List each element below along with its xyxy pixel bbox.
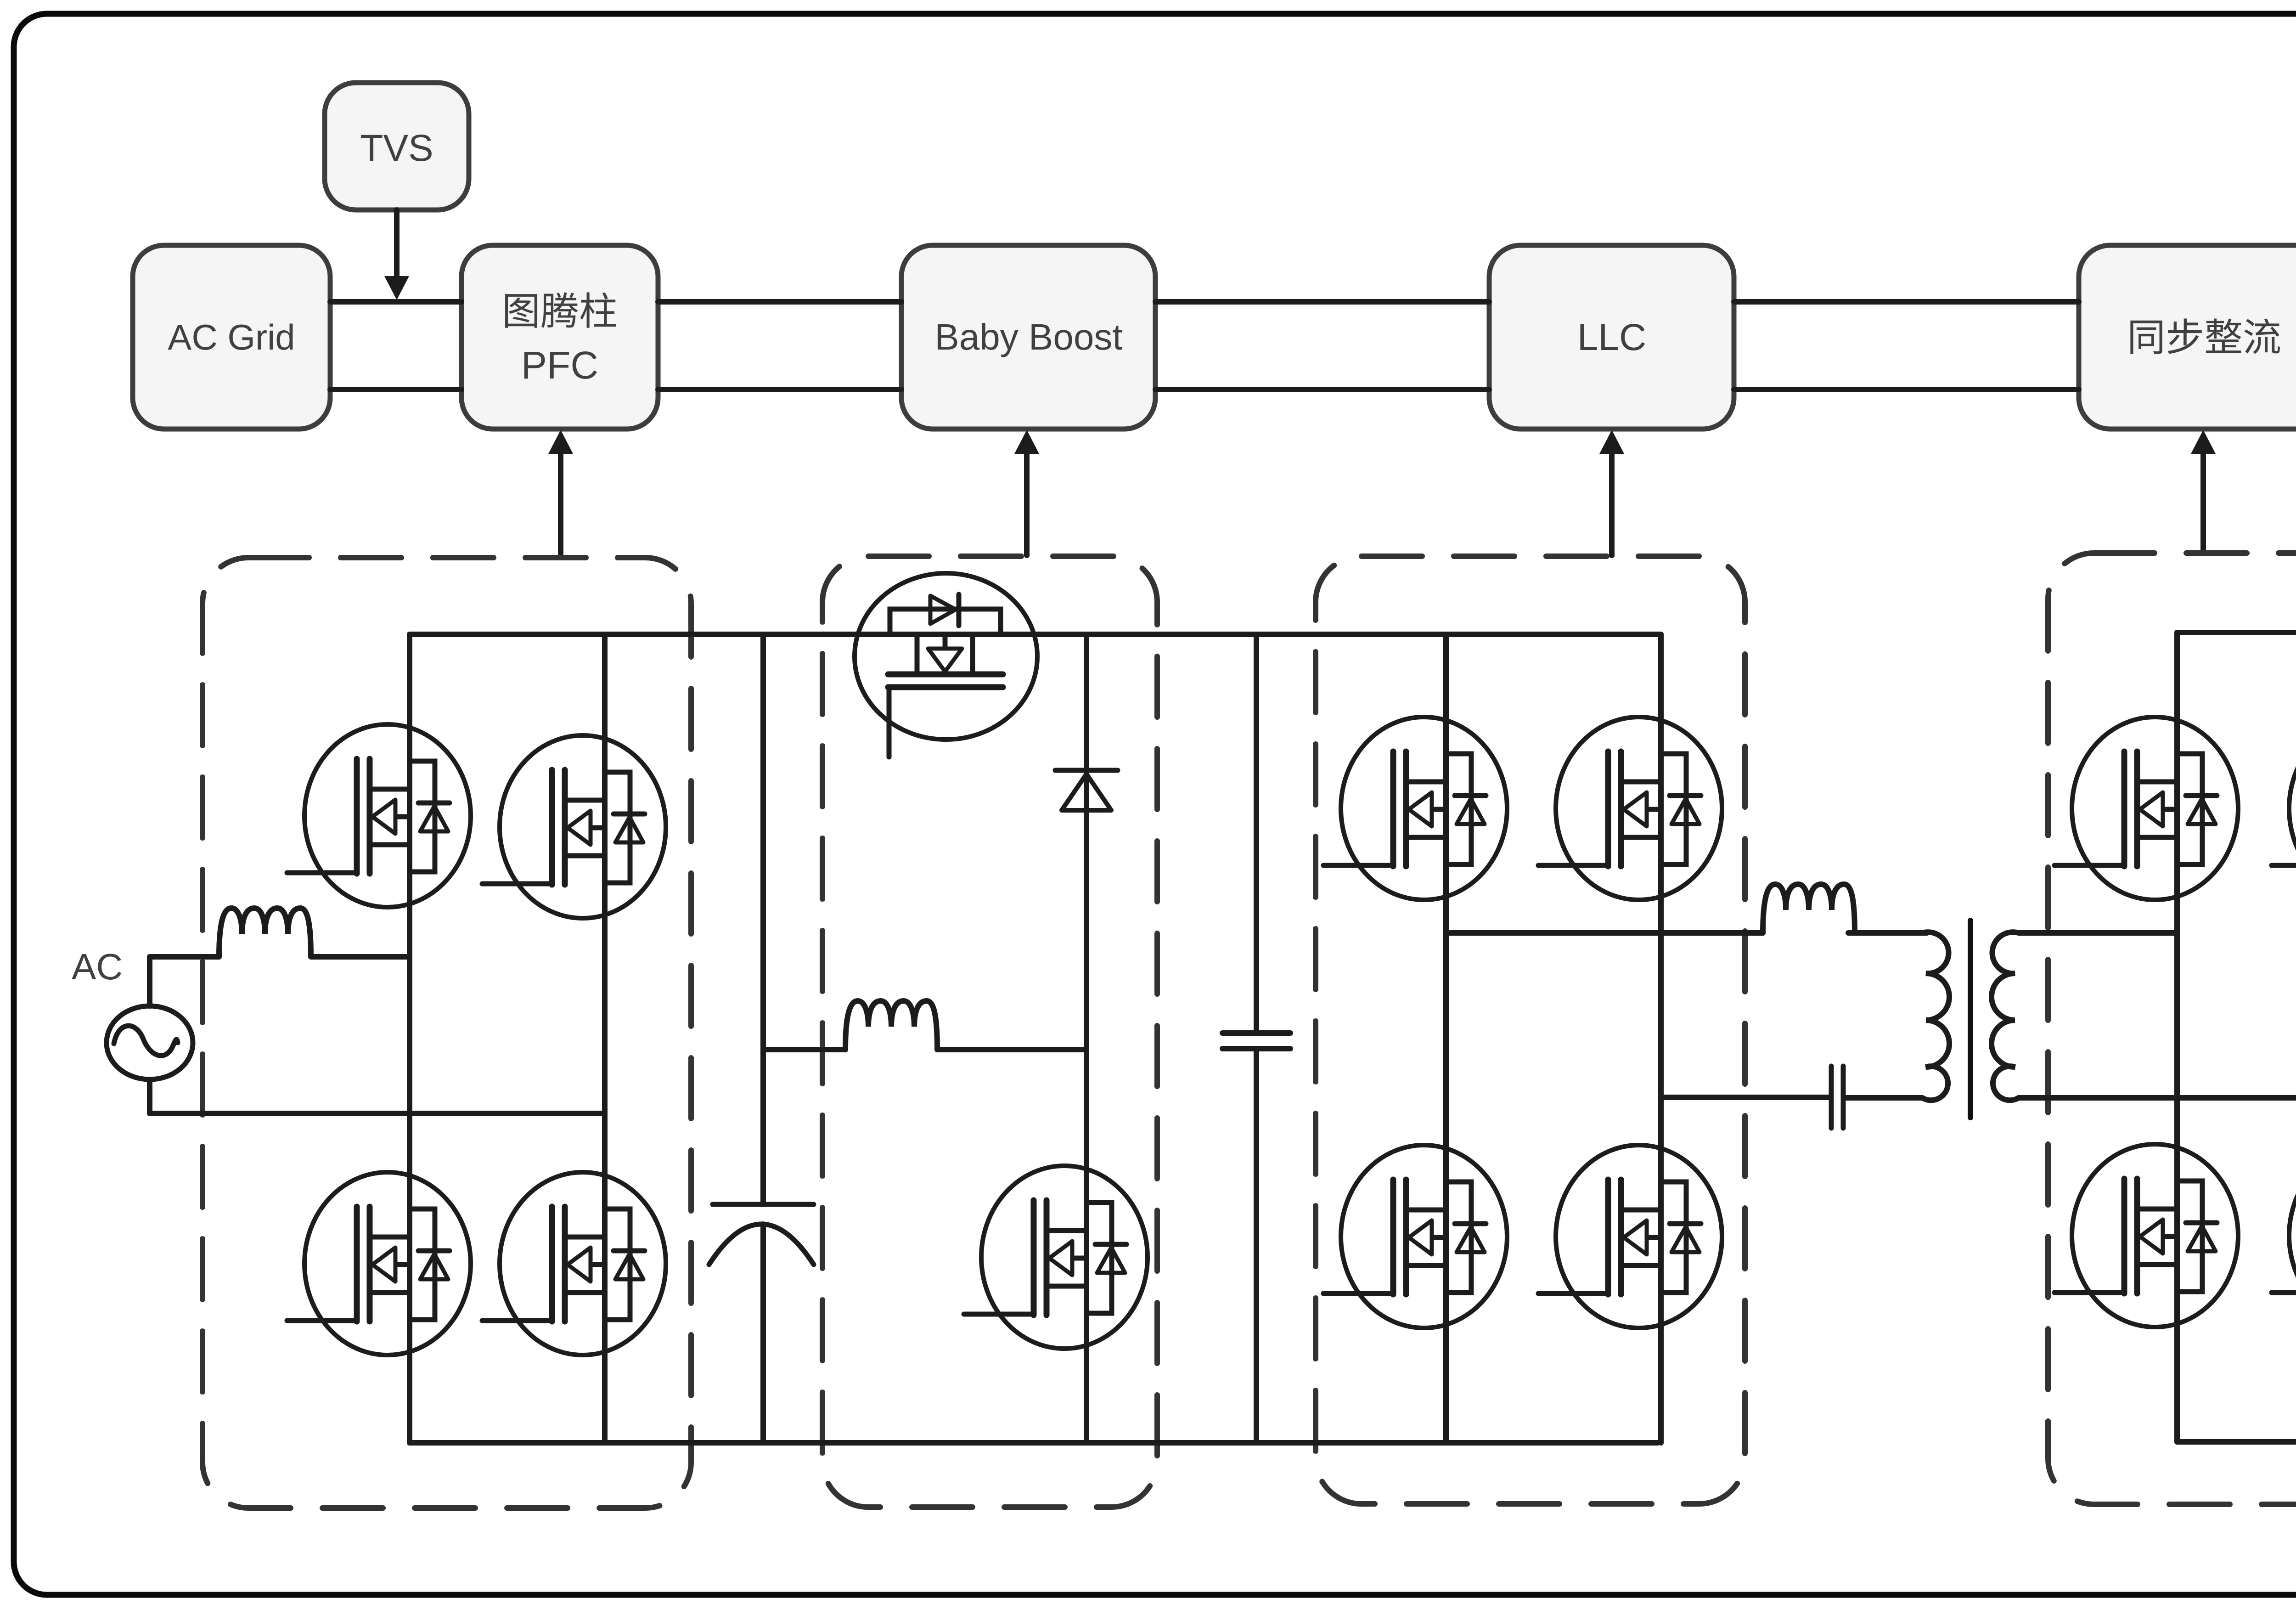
wire PFC bridge leg 1 — [407, 634, 412, 1443]
wire L1 to PFC leg1 midpoint — [311, 954, 410, 960]
svg-text:TVS: TVS — [360, 127, 433, 169]
arrow rectifier circuit to 同步整流 block — [2200, 453, 2206, 552]
inductor L1 (PFC input) — [219, 908, 311, 957]
svg-text:AC: AC — [72, 946, 123, 987]
svg-text:PFC: PFC — [521, 344, 598, 387]
wire LLC bridge leg 1 — [1443, 634, 1449, 1443]
mosfet Q4 (PFC low side B) — [482, 1172, 666, 1355]
mosfet Q8 (LLC high side B) — [1538, 717, 1722, 900]
capacitor C1 (PFC DC link) — [760, 634, 766, 1204]
mosfet Q1 (PFC high side A) — [287, 724, 471, 907]
wire bus top: Baby Boost to LLC — [1155, 299, 1489, 305]
wire LLC leg2 midpoint to Cr — [1661, 1095, 1829, 1100]
block AC Grid — [133, 245, 330, 429]
mosfet Q6 (boost low side) — [964, 1166, 1148, 1349]
block 同步整流 — [2079, 245, 2296, 429]
wire rectifier top rail — [2177, 630, 2296, 635]
wire boost inductor branch — [763, 1047, 845, 1052]
wire AC source top lead — [147, 957, 152, 1006]
wire Lr to transformer — [1855, 930, 1927, 936]
wire DC top rail (PFC/boost/LLC) — [410, 632, 1661, 637]
wire LLC leg1 midpoint to Lr — [1446, 930, 1763, 936]
wire bus top: AC Grid to PFC — [330, 299, 461, 305]
inductor L2 (boost) — [845, 1001, 937, 1050]
wire bus bottom: PFC to Baby Boost — [658, 387, 901, 392]
block LLC — [1489, 245, 1734, 429]
mosfet Q13 (rect low side A) — [2054, 1144, 2238, 1327]
wire bus bottom: LLC to 同步整流 — [1734, 387, 2079, 392]
mosfet Q10 (LLC low side B) — [1538, 1145, 1722, 1328]
block TVS (left) — [325, 83, 469, 210]
mosfet Q5 (boost high side, horizontal) — [855, 573, 1037, 757]
mosfet Q3 (PFC low side A) — [287, 1172, 471, 1355]
block Baby Boost — [901, 245, 1155, 429]
dashed box: LLC stage — [1316, 556, 1745, 1504]
wire LLC bridge leg 2 — [1658, 634, 1664, 1443]
transformer T1 core — [1968, 921, 1973, 1118]
mosfet Q14 (rect low side B) — [2272, 1144, 2296, 1327]
transformer T1 secondary winding — [1992, 932, 2296, 1100]
mosfet Q11 (rect high side A) — [2054, 717, 2238, 900]
svg-text:LLC: LLC — [1577, 316, 1646, 358]
mosfet Q2 (PFC high side B) — [482, 735, 666, 918]
svg-text:Baby Boost: Baby Boost — [934, 316, 1122, 357]
dashed box: baby boost stage — [822, 556, 1157, 1507]
arrow TVS left to bus — [394, 210, 400, 276]
wire bus top: PFC to Baby Boost — [658, 299, 901, 305]
mosfet Q7 (LLC high side A) — [1323, 717, 1507, 900]
svg-text:AC Grid: AC Grid — [168, 317, 295, 357]
wire AC source bottom lead — [147, 1079, 152, 1113]
inductor Lr (resonant) — [1763, 884, 1855, 933]
transformer T1 primary winding — [1846, 932, 1949, 1100]
mosfet Q12 (rect high side B) — [2272, 717, 2296, 900]
arrow LLC circuit to LLC block — [1609, 453, 1615, 555]
dashed box: synchronous rectifier stage — [2048, 553, 2296, 1504]
wire PFC bridge leg 2 — [602, 634, 608, 1443]
arrow boost circuit to Baby Boost block — [1024, 453, 1030, 555]
wire bus bottom: AC Grid to PFC — [330, 387, 461, 392]
wire bus bottom: Baby Boost to LLC — [1155, 387, 1489, 392]
wire boost diode leg — [1084, 634, 1089, 1443]
arrow PFC circuit to PFC block — [558, 453, 563, 557]
dashed box: totem-pole PFC stage — [203, 558, 691, 1508]
capacitor Cr (resonant) — [1829, 1066, 1834, 1128]
diode D1 (boost) — [1055, 768, 1118, 773]
ac source V1 — [107, 1006, 193, 1079]
block 图腾柱 PFC — [461, 245, 658, 429]
wire rectifier bridge leg 1 — [2174, 633, 2180, 1442]
wire bus top: LLC to 同步整流 — [1734, 299, 2079, 305]
wire rectifier bottom rail — [2177, 1439, 2296, 1445]
capacitor C2 (boost output) — [1254, 634, 1259, 1031]
wire DC bottom rail (PFC/boost/LLC) — [410, 1440, 1658, 1446]
mosfet Q9 (LLC low side A) — [1323, 1145, 1507, 1328]
wire L2 to diode node — [937, 1047, 1086, 1052]
